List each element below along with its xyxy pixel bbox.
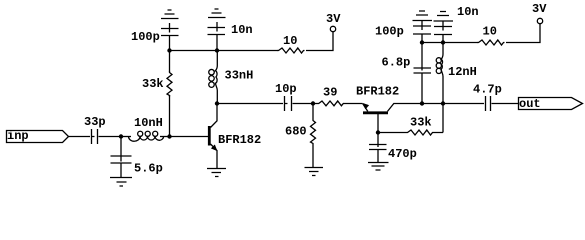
wire rail2 (422, 42, 478, 44)
svg-text:10: 10 (483, 24, 497, 38)
svg-text:out: out (519, 97, 541, 111)
wire R680 to ground (312, 147, 314, 167)
wire collector line to C4.7p (422, 103, 484, 105)
svg-text:6.8p: 6.8p (382, 56, 411, 70)
svg-text:4.7p: 4.7p (473, 82, 502, 96)
svg-text:680: 680 (285, 125, 307, 139)
ground (top, above 10n) (208, 9, 226, 18)
node A (119, 134, 123, 138)
wire L10nH to node B (160, 136, 169, 138)
inp port (7, 129, 69, 143)
wire R33k up to collector line (442, 104, 444, 133)
resistor 10 (left) (278, 34, 305, 53)
capacitor 470p (369, 133, 417, 163)
svg-text:33k: 33k (142, 77, 164, 91)
node rail1-mid (215, 48, 219, 52)
svg-text:33nH: 33nH (225, 68, 254, 82)
transistor Q2 BFR182 (356, 84, 422, 132)
node E (12nH branch) (441, 101, 445, 105)
transistor Q1 BFR182 (209, 104, 261, 169)
capacitor 100p (right) (375, 21, 431, 43)
capacitor 100p (131, 23, 179, 51)
out port (519, 97, 583, 111)
resistor 33k (142, 72, 172, 97)
node rail2-left (420, 40, 424, 44)
svg-text:inp: inp (7, 129, 29, 143)
svg-text:10nH: 10nH (134, 116, 163, 130)
svg-text:10n: 10n (231, 23, 253, 37)
svg-text:33p: 33p (84, 115, 106, 129)
wire C4.7p to out port (492, 103, 519, 105)
svg-text:10p: 10p (275, 82, 297, 96)
capacitor 4.7p (473, 82, 502, 111)
svg-text:33k: 33k (410, 116, 432, 130)
inductor 10nH (128, 116, 163, 141)
capacitor 6.8p (382, 43, 432, 104)
svg-text:12nH: 12nH (448, 65, 477, 79)
node Q1 collector (215, 101, 219, 105)
svg-text:BFR182: BFR182 (218, 133, 261, 147)
svg-text:100p: 100p (375, 25, 404, 39)
svg-text:100p: 100p (131, 30, 160, 44)
node rail2-right (441, 40, 445, 44)
node B (167, 134, 171, 138)
svg-text:470p: 470p (388, 147, 417, 161)
ground (top, above 100p right) (413, 11, 433, 21)
node rail1-left (167, 48, 171, 52)
wire Q1 collector node to C10p (217, 103, 283, 105)
wire R680 lead (312, 145, 314, 147)
ground (under 5.6p) (110, 178, 132, 187)
wire node B up to R 33k (169, 95, 171, 137)
capacitor 33p (84, 115, 106, 144)
capacitor 10p (275, 82, 297, 111)
wire node B to Q1 base (170, 136, 209, 138)
resistor 39 (313, 86, 344, 106)
wire C33p to node A (99, 136, 122, 138)
svg-text:10n: 10n (457, 5, 479, 19)
capacitor 10n (right) (434, 5, 479, 43)
capacitor 10n (208, 22, 253, 51)
node Q2 base (376, 130, 380, 134)
ground (under Q1 emitter) (207, 169, 226, 177)
terminal 3V (left) (326, 12, 341, 32)
wire R33k to rail1 (169, 51, 171, 73)
svg-text:5.6p: 5.6p (134, 162, 163, 176)
wire R39 to Q2 emitter (344, 103, 363, 105)
resistor 10 (right) (478, 24, 505, 45)
inductor 33nH (209, 51, 254, 104)
node D (6.8p branch) (420, 101, 424, 105)
resistor 33k (Q2 bias) (378, 116, 443, 136)
capacitor 5.6p (111, 137, 163, 178)
svg-text:10: 10 (283, 34, 297, 48)
ground (top, above 100p) (161, 10, 179, 19)
ground (under 470p) (368, 163, 389, 171)
wire input to C 33p (69, 136, 91, 138)
svg-text:BFR182: BFR182 (356, 84, 399, 98)
ground (top, above 10n right) (434, 12, 454, 22)
resistor 680 (285, 104, 316, 146)
inductor 12nH (436, 43, 477, 104)
wire rail1 (170, 50, 279, 52)
svg-text:3V: 3V (326, 12, 341, 26)
wire C10p to node C (293, 103, 314, 105)
node C (311, 101, 315, 105)
wire R10 to 3V (right) (506, 24, 540, 43)
ground (under 680) (305, 168, 324, 176)
svg-text:3V: 3V (532, 2, 547, 16)
wire node A to L 10nH (121, 136, 131, 138)
terminal 3V (right) (532, 2, 547, 24)
svg-text:39: 39 (323, 86, 337, 100)
wire R10 to 3V (306, 32, 333, 51)
